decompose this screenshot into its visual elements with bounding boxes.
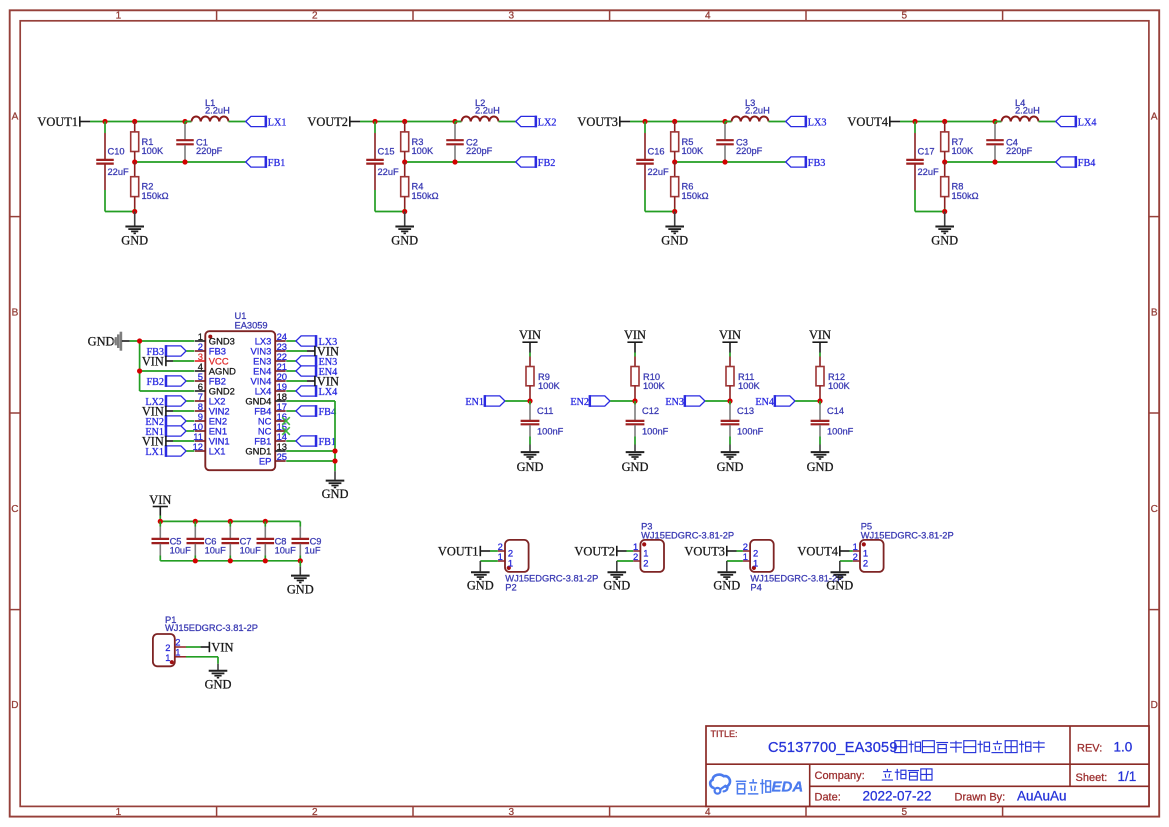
resistor R8 150k xyxy=(941,162,979,212)
svg-text:3: 3 xyxy=(509,807,515,818)
U1 pin 7 LX2 xyxy=(195,391,226,407)
net label VOUT1 xyxy=(37,115,90,129)
svg-text:2: 2 xyxy=(312,11,318,22)
no-connect pin 16 xyxy=(282,417,290,425)
svg-text:TITLE:: TITLE: xyxy=(711,729,738,739)
P3 pin 2 xyxy=(633,551,649,569)
U1 pin 25 EP xyxy=(259,451,287,467)
svg-text:10uF: 10uF xyxy=(170,546,192,556)
svg-text:LX1: LX1 xyxy=(209,446,226,457)
node junction xyxy=(372,119,457,124)
port EN4 xyxy=(755,395,820,408)
svg-text:VIN: VIN xyxy=(624,328,646,342)
capacitor C1 220pF xyxy=(176,122,222,163)
svg-text:WJ15EDGRC-3.81-2P: WJ15EDGRC-3.81-2P xyxy=(641,530,734,540)
svg-text:VOUT2: VOUT2 xyxy=(307,115,348,129)
node junction xyxy=(402,159,458,164)
svg-text:GND: GND xyxy=(661,233,688,247)
node junction xyxy=(332,448,337,463)
net label VOUT3 xyxy=(577,115,630,129)
svg-text:4: 4 xyxy=(705,11,711,22)
svg-text:VIN: VIN xyxy=(149,493,171,507)
svg-text:2: 2 xyxy=(863,557,868,568)
capacitor C10 22uF xyxy=(96,122,129,212)
svg-text:LX1: LX1 xyxy=(268,117,287,128)
svg-text:10uF: 10uF xyxy=(275,546,297,556)
svg-text:FB1: FB1 xyxy=(268,158,286,169)
svg-text:1/1: 1/1 xyxy=(1118,769,1137,784)
svg-text:150kΩ: 150kΩ xyxy=(952,191,979,201)
svg-text:220pF: 220pF xyxy=(1006,146,1033,156)
port FB2 at U1 xyxy=(146,375,194,388)
svg-text:10uF: 10uF xyxy=(240,546,262,556)
P1 pin 2 xyxy=(165,637,186,654)
svg-text:VIN: VIN xyxy=(317,375,339,389)
P2 pin 1 xyxy=(498,551,514,569)
net label VOUT4 xyxy=(847,115,900,129)
svg-text:FB4: FB4 xyxy=(319,407,337,418)
svg-text:2022-07-22: 2022-07-22 xyxy=(863,789,932,804)
svg-text:GND: GND xyxy=(517,460,544,474)
node junction xyxy=(402,209,407,214)
svg-text:GND: GND xyxy=(322,487,349,501)
port LX2 xyxy=(516,116,557,129)
svg-text:GND: GND xyxy=(826,579,853,593)
inductor L4 2.2uH xyxy=(995,98,1040,122)
wire xyxy=(630,121,732,123)
svg-text:AuAuAu: AuAuAu xyxy=(1017,789,1067,804)
capacitor C11 100nF xyxy=(521,401,564,445)
svg-text:Date:: Date: xyxy=(815,792,841,804)
node junction xyxy=(942,159,998,164)
P5 pin 1 xyxy=(853,541,869,559)
svg-text:C: C xyxy=(1151,504,1158,515)
wire FB net xyxy=(405,161,516,163)
svg-text:100K: 100K xyxy=(538,381,561,391)
svg-text:C11: C11 xyxy=(537,406,553,416)
svg-text:VOUT4: VOUT4 xyxy=(797,545,838,559)
ground xyxy=(391,212,418,248)
wire xyxy=(90,121,192,123)
connector P5 WJ15EDGRC-3.81-2P xyxy=(860,521,954,572)
resistor R7 100K xyxy=(941,122,974,163)
svg-text:D: D xyxy=(11,700,18,711)
title text xyxy=(711,729,1045,756)
svg-text:22uF: 22uF xyxy=(648,167,670,177)
port LX2 at U1 xyxy=(145,395,194,408)
port EN2 at U1 xyxy=(145,415,194,428)
svg-text:D: D xyxy=(1151,700,1158,711)
svg-text:2: 2 xyxy=(643,557,648,568)
svg-text:1: 1 xyxy=(175,647,180,658)
svg-text:GND: GND xyxy=(931,233,958,247)
ground at P4 xyxy=(713,561,743,593)
U1 pin 10 EN1 xyxy=(193,421,227,437)
svg-text:220pF: 220pF xyxy=(196,146,223,156)
capacitor C16 22uF xyxy=(636,122,669,212)
node junction xyxy=(137,338,142,373)
svg-text:150kΩ: 150kΩ xyxy=(412,191,439,201)
svg-text:Drawn By:: Drawn By: xyxy=(955,792,1006,804)
svg-text:100nF: 100nF xyxy=(827,427,854,437)
node junction xyxy=(672,209,677,214)
svg-text:REV:: REV: xyxy=(1077,743,1102,755)
ground xyxy=(661,212,688,248)
svg-text:C10: C10 xyxy=(108,147,125,157)
rev xyxy=(1077,740,1132,755)
wire FB net xyxy=(675,161,786,163)
svg-text:VOUT3: VOUT3 xyxy=(684,545,725,559)
svg-text:P4: P4 xyxy=(750,583,761,593)
svg-text:VIN: VIN xyxy=(809,328,831,342)
ground at P5 xyxy=(826,561,853,593)
svg-text:GND: GND xyxy=(205,678,232,692)
svg-text:FB2: FB2 xyxy=(146,377,164,388)
svg-text:5: 5 xyxy=(902,807,908,818)
wire xyxy=(360,121,462,123)
port FB2 xyxy=(516,156,556,169)
wire xyxy=(900,121,1002,123)
node junction xyxy=(527,398,532,403)
wire xyxy=(375,211,405,213)
svg-text:GND: GND xyxy=(88,335,115,349)
svg-text:100K: 100K xyxy=(643,381,666,391)
node junction xyxy=(642,119,727,124)
svg-text:GND: GND xyxy=(287,582,314,596)
wire xyxy=(499,121,516,123)
wire xyxy=(529,353,531,357)
connector P1 WJ15EDGRC-3.81-2P xyxy=(153,615,258,667)
net label VIN xyxy=(719,328,741,353)
svg-text:WJ15EDGRC-3.81-2P: WJ15EDGRC-3.81-2P xyxy=(165,623,258,633)
wire GND4/GND1/EP to ground xyxy=(286,401,335,471)
wire xyxy=(229,121,246,123)
port LX4 at U1 xyxy=(286,385,337,398)
net label VOUT4 at P5 xyxy=(797,545,852,559)
ground at P3 xyxy=(603,561,633,593)
wire FB net xyxy=(945,161,1056,163)
U1 pin 20 VIN4 xyxy=(251,371,287,387)
resistor R2 150k xyxy=(131,162,169,212)
svg-text:LX1: LX1 xyxy=(145,447,164,458)
svg-text:GND: GND xyxy=(391,233,418,247)
capacitor C17 22uF xyxy=(906,122,939,212)
no-connect pin 15 xyxy=(282,427,290,435)
svg-text:1uF: 1uF xyxy=(305,546,321,556)
svg-text:WJ15EDGRC-3.81-2P: WJ15EDGRC-3.81-2P xyxy=(505,574,598,584)
P3 pin 1 xyxy=(633,541,649,559)
net label VOUT2 xyxy=(307,115,360,129)
U1 pin 5 FB2 xyxy=(195,371,226,387)
sheet xyxy=(1076,769,1137,784)
svg-text:2.2uH: 2.2uH xyxy=(745,106,770,116)
wire VIN rail xyxy=(160,516,300,522)
U1 pin 6 GND2 xyxy=(195,381,235,397)
inductor L3 2.2uH xyxy=(725,98,770,122)
U1 pin 17 FB4 xyxy=(254,401,287,417)
port LX1 at U1 xyxy=(145,445,194,458)
svg-text:1: 1 xyxy=(498,551,503,562)
op-amp U1 EA3059 body xyxy=(205,311,275,470)
U1 pin 16 NC xyxy=(258,411,287,427)
P1 pin 1 xyxy=(165,647,186,663)
svg-text:GND: GND xyxy=(121,233,148,247)
port EN3 xyxy=(665,395,730,408)
net label VOUT3 at P4 xyxy=(684,545,743,559)
svg-text:GND: GND xyxy=(807,460,834,474)
net label VIN at U1 right xyxy=(286,345,339,359)
svg-text:GND: GND xyxy=(717,460,744,474)
svg-text:4: 4 xyxy=(705,807,711,818)
capacitor C15 22uF xyxy=(366,122,399,212)
svg-text:VOUT1: VOUT1 xyxy=(37,115,78,129)
U1 pin 9 EN2 xyxy=(195,411,227,427)
capacitor C7 10uF xyxy=(222,521,262,560)
capacitor C6 10uF xyxy=(187,521,227,560)
svg-text:2.2uH: 2.2uH xyxy=(1015,106,1040,116)
net label VIN at U1 left xyxy=(142,405,194,419)
svg-text:1: 1 xyxy=(116,11,122,22)
svg-text:C: C xyxy=(11,504,18,515)
connector P3 WJ15EDGRC-3.81-2P xyxy=(640,521,734,572)
wire xyxy=(105,211,135,213)
node junction xyxy=(632,398,637,403)
ground xyxy=(807,445,834,475)
wire xyxy=(645,211,675,213)
U1 pin 23 VIN3 xyxy=(251,341,287,357)
capacitor C5 10uF xyxy=(152,521,192,560)
resistor R11 100K xyxy=(726,357,761,402)
title block xyxy=(706,726,1149,806)
U1 pin 1 GND3 xyxy=(195,331,235,347)
company xyxy=(815,769,933,782)
svg-text:EN2: EN2 xyxy=(570,397,589,408)
net label VIN at P1 xyxy=(186,641,233,655)
svg-text:GND: GND xyxy=(467,579,494,593)
svg-text:LX2: LX2 xyxy=(538,117,557,128)
inductor L2 2.2uH xyxy=(455,98,500,122)
U1 pin 15 NC xyxy=(258,421,287,437)
U1 pin 24 LX3 xyxy=(255,331,287,347)
svg-text:C15: C15 xyxy=(378,147,395,157)
svg-text:C17: C17 xyxy=(918,147,935,157)
resistor R5 100K xyxy=(671,122,704,163)
svg-text:EN1: EN1 xyxy=(465,397,484,408)
svg-text:VIN: VIN xyxy=(211,641,233,655)
node junction xyxy=(102,119,187,124)
inductor L1 2.2uH xyxy=(185,98,230,122)
wire xyxy=(769,121,786,123)
node junction xyxy=(132,159,188,164)
svg-text:EA3059: EA3059 xyxy=(235,321,268,331)
svg-text:C14: C14 xyxy=(827,406,844,416)
svg-text:EN4: EN4 xyxy=(755,397,774,408)
date xyxy=(815,789,932,804)
U1 pin 8 VIN2 xyxy=(195,401,230,417)
capacitor C4 220pF xyxy=(986,122,1032,163)
capacitor C2 220pF xyxy=(446,122,492,163)
U1 pin 3 VCC xyxy=(195,351,229,367)
svg-text:FB2: FB2 xyxy=(538,158,556,169)
port LX1 xyxy=(246,116,287,129)
ground at U1 xyxy=(322,471,349,501)
svg-text:1: 1 xyxy=(508,557,513,568)
U1 pin 18 GND4 xyxy=(245,391,287,407)
resistor R9 100K xyxy=(526,357,561,402)
svg-text:VIN: VIN xyxy=(142,355,164,369)
net label VIN at U1 right xyxy=(286,375,339,389)
svg-text:100K: 100K xyxy=(412,146,435,156)
svg-text:A: A xyxy=(1151,111,1158,122)
port LX3 xyxy=(786,116,827,129)
svg-text:100nF: 100nF xyxy=(737,427,764,437)
svg-text:1: 1 xyxy=(753,557,758,568)
svg-text:22uF: 22uF xyxy=(378,167,400,177)
svg-text:C12: C12 xyxy=(642,406,659,416)
svg-text:FB4: FB4 xyxy=(1078,158,1096,169)
port FB4 at U1 xyxy=(286,405,336,418)
net label VIN xyxy=(624,328,646,353)
svg-text:3: 3 xyxy=(509,11,515,22)
U1 pin 13 GND1 xyxy=(245,441,287,457)
net label VIN xyxy=(519,328,541,353)
net label VOUT2 at P3 xyxy=(574,545,633,559)
svg-text:100K: 100K xyxy=(738,381,761,391)
P2 pin 2 xyxy=(498,541,514,559)
svg-text:1: 1 xyxy=(116,807,122,818)
wire GND rail xyxy=(160,560,300,562)
ground xyxy=(622,445,649,475)
port LX4 xyxy=(1056,116,1097,129)
svg-text:100K: 100K xyxy=(828,381,851,391)
port FB3 at U1 xyxy=(146,345,194,358)
U1 pin 14 FB1 xyxy=(254,431,287,447)
svg-text:2.2uH: 2.2uH xyxy=(205,106,230,116)
svg-text:WJ15EDGRC-3.81-2P: WJ15EDGRC-3.81-2P xyxy=(861,530,954,540)
net label VIN xyxy=(809,328,831,353)
svg-text:R2: R2 xyxy=(142,182,154,192)
svg-text:VOUT2: VOUT2 xyxy=(574,545,615,559)
svg-text:LX3: LX3 xyxy=(808,117,827,128)
U1 pin 22 EN3 xyxy=(253,351,287,367)
svg-text:GND: GND xyxy=(622,460,649,474)
svg-text:VOUT1: VOUT1 xyxy=(438,545,479,559)
svg-text:1.0: 1.0 xyxy=(1114,740,1133,755)
svg-text:2: 2 xyxy=(633,551,638,562)
capacitor C12 100nF xyxy=(626,401,669,445)
svg-text:1: 1 xyxy=(743,551,748,562)
ground xyxy=(121,212,148,248)
capacitor C9 1uF xyxy=(292,521,322,560)
svg-text:150kΩ: 150kΩ xyxy=(142,191,169,201)
port EN3 at U1 xyxy=(286,355,337,368)
svg-text:C16: C16 xyxy=(648,147,665,157)
resistor R12 100K xyxy=(816,357,851,402)
U1 pin 2 FB3 xyxy=(195,341,226,357)
svg-text:100K: 100K xyxy=(952,146,975,156)
svg-text:VIN: VIN xyxy=(142,405,164,419)
ground xyxy=(287,561,314,597)
svg-text:P2: P2 xyxy=(505,583,516,593)
ground xyxy=(931,212,958,248)
svg-text:VOUT3: VOUT3 xyxy=(577,115,618,129)
node junction xyxy=(942,209,947,214)
svg-text:Sheet:: Sheet: xyxy=(1076,772,1108,784)
svg-text:100K: 100K xyxy=(142,146,165,156)
capacitor C14 100nF xyxy=(811,401,854,445)
port EN2 xyxy=(570,395,635,408)
wire GND bus xyxy=(130,341,195,391)
P4 pin 2 xyxy=(743,541,759,559)
svg-text:25: 25 xyxy=(277,451,287,462)
svg-text:B: B xyxy=(1151,308,1158,319)
capacitor C13 100nF xyxy=(721,401,764,445)
wire xyxy=(729,353,731,357)
svg-text:LX4: LX4 xyxy=(319,387,338,398)
svg-text:100nF: 100nF xyxy=(642,427,669,437)
node junction xyxy=(193,558,303,563)
ground xyxy=(517,445,544,475)
P5 pin 2 xyxy=(853,551,869,569)
U1 pin 21 EN4 xyxy=(253,361,287,377)
node junction xyxy=(727,398,732,403)
svg-text:22uF: 22uF xyxy=(108,167,130,177)
resistor R3 100K xyxy=(401,122,434,163)
svg-text:R4: R4 xyxy=(412,182,424,192)
port FB1 xyxy=(246,156,286,169)
svg-text:22uF: 22uF xyxy=(918,167,940,177)
wire FB net xyxy=(135,161,246,163)
port FB4 xyxy=(1056,156,1096,169)
svg-text:R8: R8 xyxy=(952,182,964,192)
svg-text:VIN: VIN xyxy=(719,328,741,342)
resistor R1 100K xyxy=(131,122,164,163)
node junction xyxy=(672,159,728,164)
svg-text:100nF: 100nF xyxy=(537,427,564,437)
port LX3 at U1 xyxy=(286,335,337,348)
svg-text:EP: EP xyxy=(259,456,272,467)
svg-text:GND: GND xyxy=(713,579,740,593)
port EN4 at U1 xyxy=(286,365,337,378)
logo JLC EDA xyxy=(710,775,803,796)
svg-text:2.2uH: 2.2uH xyxy=(475,106,500,116)
net label VOUT1 at P2 xyxy=(438,545,498,559)
svg-text:10uF: 10uF xyxy=(205,546,227,556)
svg-text:GND: GND xyxy=(603,579,630,593)
net label VIN at U1 left xyxy=(142,355,194,369)
svg-text:FB1: FB1 xyxy=(319,437,337,448)
svg-text:Company:: Company: xyxy=(815,770,865,782)
svg-text:EN3: EN3 xyxy=(665,397,684,408)
port EN1 at U1 xyxy=(145,425,194,438)
svg-text:B: B xyxy=(12,308,19,319)
U1 pin 4 AGND xyxy=(195,361,236,377)
svg-text:2: 2 xyxy=(312,807,318,818)
node junction xyxy=(912,119,997,124)
svg-text:C5137700_EA3059: C5137700_EA3059 xyxy=(768,740,898,756)
drawn by xyxy=(955,789,1067,804)
net label VIN xyxy=(149,493,171,516)
node junction xyxy=(817,398,822,403)
svg-text:1: 1 xyxy=(165,652,170,663)
svg-text:EDA: EDA xyxy=(772,779,804,796)
wire xyxy=(1039,121,1056,123)
port FB3 xyxy=(786,156,826,169)
svg-text:220pF: 220pF xyxy=(466,146,493,156)
wire xyxy=(634,353,636,357)
svg-text:VIN: VIN xyxy=(519,328,541,342)
svg-text:5: 5 xyxy=(902,11,908,22)
